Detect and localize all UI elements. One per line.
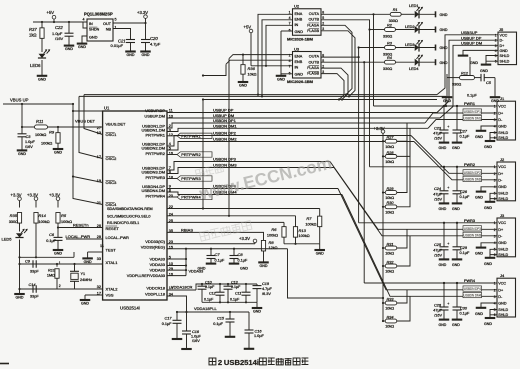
svg-text:/16V: /16V: [434, 314, 442, 318]
svg-text:28: 28: [97, 235, 101, 239]
svg-text:GND: GND: [484, 206, 492, 210]
wire RBIAS to R8: [261, 232, 264, 241]
svg-text:GND: GND: [38, 77, 46, 81]
svg-text:10kΩ: 10kΩ: [385, 145, 394, 149]
wire R28 riser: [397, 128, 410, 156]
svg-text:SCL/SMBCLK/CFG.SEL0: SCL/SMBCLK/CFG.SEL0: [107, 215, 150, 219]
ground GND below C3: [17, 149, 28, 151]
svg-text:R37: R37: [29, 27, 37, 32]
resistor R3 330: [385, 46, 396, 50]
svg-text:R9: R9: [49, 130, 55, 135]
svg-text:RBIAS: RBIAS: [181, 228, 193, 233]
svg-text:USBDN DM4: USBDN DM4: [463, 294, 481, 298]
ground GND below R36: [238, 81, 249, 83]
svg-text:1kΩ: 1kΩ: [29, 33, 37, 38]
wire regulator OUT to +3.3V: [113, 22, 146, 24]
ground GND below C22: [64, 45, 75, 47]
svg-text:C13: C13: [231, 280, 238, 284]
svg-text:R3: R3: [387, 41, 393, 45]
svg-text:LOCAL..PWR: LOCAL..PWR: [106, 236, 130, 240]
svg-text:GND: GND: [452, 263, 460, 267]
svg-text:2: 2: [494, 172, 496, 176]
wire regulator NB pin to C21: [113, 29, 131, 40]
svg-text:+3.3V: +3.3V: [27, 192, 38, 197]
ground GND below J5 GND pin: [458, 55, 469, 57]
wire IC top-left corner link: [73, 110, 103, 112]
supply +3.3V terminal at regulator output: [144, 15, 148, 19]
svg-text:USBDN DM2: USBDN DM2: [213, 137, 237, 142]
svg-text:GND: GND: [439, 207, 447, 211]
svg-text:5: 5: [115, 18, 117, 22]
wire R29 riser: [397, 136, 407, 193]
svg-text:0.1μF: 0.1μF: [460, 134, 470, 138]
svg-text:PRTPWR1: PRTPWR1: [181, 133, 201, 138]
svg-text:12: 12: [169, 133, 173, 137]
svg-text:+: +: [447, 302, 449, 306]
svg-text:/16V: /16V: [192, 339, 200, 343]
svg-text:2: 2: [494, 228, 496, 232]
svg-text:RESET: RESET: [106, 226, 120, 231]
wire PWR2 line: [370, 166, 498, 168]
svg-text:TEST: TEST: [106, 247, 117, 252]
capacitor C16: [248, 312, 250, 330]
svg-text:1: 1: [495, 33, 497, 37]
capacitor C14: [32, 285, 34, 293]
svg-text:0.1μF: 0.1μF: [46, 239, 56, 243]
svg-text:USBDN DP2: USBDN DP2: [213, 131, 237, 136]
svg-text:PRTPWR3: PRTPWR3: [181, 176, 201, 181]
svg-text:C5: C5: [486, 81, 492, 85]
corner mark bottom-left: [0, 363, 9, 365]
ground GND at J1: [476, 130, 487, 132]
wire USBDN DM1 row: [167, 128, 428, 131]
svg-text:VBUS.DET: VBUS.DET: [106, 121, 127, 126]
wire LED6 to ground: [41, 60, 43, 75]
ground GND below C25: [439, 258, 450, 260]
svg-text:GND: GND: [127, 53, 135, 57]
svg-text:R7: R7: [306, 216, 312, 221]
svg-text:OSC1: OSC1: [106, 132, 118, 137]
svg-text:VCC: VCC: [498, 221, 506, 225]
svg-text:GND: GND: [452, 323, 460, 327]
svg-text:C17: C17: [165, 316, 173, 320]
wire R12 left to ground leg: [447, 77, 460, 79]
capacitor C11: [245, 284, 247, 292]
svg-text:C15: C15: [217, 316, 225, 320]
svg-text:27: 27: [97, 126, 101, 130]
resistor R14 100k: [34, 213, 38, 224]
regulator U4 PQ1L303M2SP: [87, 19, 113, 41]
wire USBDN DM3 row: [167, 168, 334, 174]
svg-text:USBDN DP2: USBDN DP2: [464, 171, 481, 175]
capacitor C7: [210, 249, 212, 256]
svg-text:0.1μF: 0.1μF: [460, 251, 470, 255]
svg-text:C26: C26: [434, 303, 442, 307]
svg-text:0.1μF: 0.1μF: [215, 259, 225, 263]
label box USBDN DP3: [463, 226, 482, 231]
svg-text:R4: R4: [387, 56, 392, 60]
svg-text:GND: GND: [498, 124, 507, 128]
svg-text:1: 1: [494, 281, 496, 285]
svg-text:R29: R29: [387, 187, 395, 191]
ground below C18: [181, 348, 192, 350]
svg-text:C29: C29: [460, 246, 468, 250]
svg-text:C24: C24: [434, 187, 441, 191]
svg-text:10kΩ: 10kΩ: [385, 196, 394, 200]
svg-text:USBDN DM1: USBDN DM1: [213, 123, 237, 128]
wire SDA pin22 to R7: [167, 208, 320, 210]
svg-text:XTAL2: XTAL2: [106, 286, 119, 291]
svg-text:1: 1: [494, 104, 496, 108]
svg-text:C12: C12: [209, 292, 216, 296]
resistor R34 10k: [382, 320, 384, 322]
svg-text:USBUP DM: USBUP DM: [461, 40, 482, 45]
wire cap bank bottom bus: [202, 301, 257, 303]
capacitor C21: [126, 39, 135, 41]
ground GND below C30: [452, 319, 463, 321]
svg-text:XTAL1: XTAL1: [106, 260, 119, 265]
wire VDD33 feed to +3.3V rail: [288, 249, 384, 298]
capacitor C30 0.1uF: [456, 282, 458, 284]
svg-text:GND: GND: [16, 296, 24, 300]
svg-text:33pF: 33pF: [30, 269, 39, 273]
svg-text:0.1μF: 0.1μF: [460, 195, 470, 199]
wire USBUP DP row: [167, 112, 437, 114]
supply +3.3V terminal VDD33: [253, 239, 257, 243]
resistor R37: [41, 22, 43, 29]
label box USBDN DP1: [463, 109, 482, 114]
svg-text:C30: C30: [460, 306, 468, 310]
svg-text:R27: R27: [387, 136, 395, 140]
wire U3 OUTB to LED row4: [321, 61, 385, 63]
wire J2 GND pin: [481, 187, 497, 191]
svg-text:+: +: [447, 186, 449, 190]
svg-text:GND: GND: [440, 46, 448, 50]
svg-text:RS.IND/CFG.SEL1: RS.IND/CFG.SEL1: [107, 221, 139, 225]
capacitor C15: [229, 312, 231, 319]
svg-text:+3.3V: +3.3V: [137, 10, 148, 15]
supply +3.3V terminal for R35: [18, 197, 22, 201]
svg-text:GND: GND: [89, 36, 98, 40]
ground GND below R8: [258, 261, 269, 263]
svg-text:SHLD: SHLD: [498, 308, 508, 312]
ground GND below R12 left: [442, 96, 453, 98]
svg-text:R8: R8: [269, 240, 275, 245]
svg-text:C8: C8: [238, 252, 244, 257]
svg-text:USBDN DP4: USBDN DP4: [464, 287, 481, 291]
wire OCS bus line C: [203, 99, 437, 101]
wire USBDN DP4 row: [167, 188, 338, 190]
svg-text:R10: R10: [48, 268, 56, 272]
ground GND below C7: [206, 263, 217, 265]
svg-text:GND: GND: [142, 53, 150, 57]
ground below C17: [172, 338, 183, 340]
svg-text:100kΩ: 100kΩ: [61, 220, 72, 224]
svg-text:12kΩ: 12kΩ: [269, 246, 278, 250]
svg-text:USBDN DM2: USBDN DM2: [463, 177, 481, 181]
capacitor C26 47uF: [443, 282, 445, 284]
svg-text:GND: GND: [54, 252, 62, 256]
resistor R31 10k: [382, 247, 384, 249]
wire U2 ENA input: [258, 14, 293, 94]
svg-text:LED4: LED4: [409, 67, 419, 71]
svg-text:4: 4: [83, 18, 85, 22]
svg-text:VCC: VCC: [500, 33, 508, 37]
svg-text:FLAGB: FLAGB: [307, 72, 319, 76]
svg-text:/16V: /16V: [434, 137, 442, 141]
wire R32 riser: [397, 236, 410, 266]
svg-text:R13: R13: [299, 228, 307, 233]
svg-text:3: 3: [495, 44, 497, 48]
svg-text:7: 7: [289, 64, 291, 68]
svg-text:VDDA33: VDDA33: [149, 267, 165, 272]
svg-text:SHLD: SHLD: [500, 54, 510, 58]
wire USBUP DM row: [167, 117, 440, 119]
ground GND below LED6: [37, 75, 48, 77]
svg-text:J4: J4: [500, 273, 505, 278]
crystal Y1 24MHz: [74, 264, 76, 271]
wire USBDN DM4 slant to J4: [342, 195, 497, 297]
svg-text:GND: GND: [239, 84, 247, 88]
capacitor C27 0.1uF: [456, 105, 458, 107]
svg-text:0.01μF: 0.01μF: [111, 43, 124, 48]
capacitor C17: [176, 312, 178, 320]
ground GND below C8: [229, 263, 240, 265]
resistor R5 100k: [56, 213, 60, 224]
wire U3 GND pin: [281, 74, 293, 75]
wire U3 OUTA: [321, 48, 385, 58]
wire R8 to ground: [263, 251, 265, 262]
svg-text:OSC3: OSC3: [106, 180, 118, 185]
svg-text:19: 19: [97, 179, 101, 183]
capacitor C22: [68, 22, 70, 33]
supply +5V terminal: [52, 15, 56, 19]
svg-text:LED3: LED3: [405, 43, 415, 47]
wire U3 ENB jog: [226, 60, 293, 64]
svg-text:USBSUP: USBSUP: [461, 30, 478, 35]
svg-text:LED6: LED6: [30, 63, 41, 68]
resistor R35 330: [17, 213, 21, 224]
svg-text:GND: GND: [253, 310, 261, 314]
svg-text:USBDN DP1: USBDN DP1: [464, 110, 481, 114]
svg-text:GND: GND: [84, 260, 92, 264]
LED LED4: [415, 59, 419, 66]
resistor R4 330: [385, 60, 396, 64]
resistor R29 10k: [382, 191, 384, 193]
wire vertical SDA riser: [202, 100, 204, 209]
wire RESET net: [57, 223, 59, 228]
svg-text:+3.3V: +3.3V: [374, 126, 385, 131]
svg-text:R35: R35: [10, 213, 18, 218]
svg-text:24MHz: 24MHz: [80, 278, 92, 282]
svg-text:SDA/SMBDATA/NON.REM: SDA/SMBDATA/NON.REM: [107, 207, 153, 211]
svg-text:PWR3: PWR3: [464, 219, 475, 223]
svg-text:C23: C23: [434, 126, 442, 130]
svg-text:R12: R12: [461, 72, 469, 76]
svg-text:100kΩ: 100kΩ: [299, 234, 310, 238]
wire VDD33(REG) pin15: [167, 248, 288, 250]
svg-text:/16V: /16V: [55, 36, 64, 41]
svg-text:PRTPWR3: PRTPWR3: [146, 175, 166, 180]
ground GND at J2: [476, 191, 487, 193]
svg-text:U3: U3: [294, 46, 300, 51]
svg-text:C20: C20: [150, 36, 158, 41]
svg-text:10kΩ: 10kΩ: [385, 325, 394, 329]
svg-text:2: 2: [494, 111, 496, 115]
svg-text:10kΩ: 10kΩ: [385, 252, 394, 256]
resistor R12 330: [460, 76, 475, 80]
capacitor C23 47uF: [443, 105, 445, 107]
svg-text:SHLD: SHLD: [498, 248, 508, 252]
svg-text:USBUP.DP: USBUP.DP: [145, 108, 165, 113]
watermark chinese fragment upper: [195, 164, 223, 178]
svg-text:21: 21: [97, 201, 101, 205]
svg-text:ENB: ENB: [295, 60, 303, 64]
svg-text:SHLD: SHLD: [498, 253, 508, 257]
wire USBDN DP4 slant to J4: [338, 189, 497, 290]
svg-text:47μF: 47μF: [433, 192, 442, 196]
svg-text:OUTB: OUTB: [308, 60, 319, 64]
svg-text:PRTPWR1: PRTPWR1: [146, 132, 166, 137]
svg-text:GND: GND: [475, 312, 483, 316]
flag PRTPWR3: [167, 178, 177, 180]
svg-text:VCC: VCC: [498, 165, 506, 169]
svg-text:LED5: LED5: [2, 237, 13, 242]
wire bank to ground: [256, 302, 258, 307]
label box USBDN DM2: [463, 176, 482, 181]
wire R4 to LED4: [396, 61, 415, 63]
svg-text:2: 2: [495, 39, 497, 43]
wire USBDN DP1 slant to J1: [425, 113, 497, 123]
svg-text:D-: D-: [498, 179, 503, 183]
svg-text:GND: GND: [439, 146, 447, 150]
svg-text:GND: GND: [500, 49, 509, 53]
svg-text:1.0μF: 1.0μF: [52, 31, 63, 36]
svg-text:USBDN DP3: USBDN DP3: [464, 227, 481, 231]
svg-text:2: 2: [494, 288, 496, 292]
connector J3 body: [497, 218, 516, 257]
wire shield leg to R12 row: [469, 57, 471, 78]
svg-text:GND: GND: [65, 47, 73, 51]
ic U2 MIC2026-1BM body: [293, 9, 322, 36]
wire USBDN DM3 slant to J3: [334, 168, 497, 236]
svg-text:33pF: 33pF: [30, 294, 39, 298]
ground GND below C27: [452, 142, 463, 144]
svg-text:R34: R34: [387, 315, 394, 319]
svg-text:VCC: VCC: [498, 104, 506, 108]
svg-text:R1: R1: [393, 8, 398, 12]
svg-text:GND: GND: [475, 252, 483, 256]
svg-text:R2: R2: [387, 23, 393, 27]
svg-text:/16V: /16V: [434, 197, 442, 201]
svg-text:10kΩ: 10kΩ: [248, 73, 257, 77]
ground below C16: [244, 348, 255, 350]
svg-text:IN: IN: [89, 22, 93, 26]
svg-text:ENA: ENA: [295, 12, 303, 16]
svg-text:330Ω: 330Ω: [9, 220, 18, 224]
svg-text:C19: C19: [262, 282, 270, 286]
svg-text:FLAGA: FLAGA: [307, 66, 319, 70]
svg-text:FLAGA: FLAGA: [307, 23, 319, 27]
connector J5 body: [498, 32, 517, 65]
capacitor C10: [201, 284, 203, 286]
svg-text:U1: U1: [104, 106, 110, 111]
svg-text:47μF: 47μF: [433, 248, 442, 252]
svg-text:1.0μF: 1.0μF: [254, 334, 264, 338]
svg-text:R14: R14: [39, 213, 47, 218]
svg-text:GND: GND: [498, 301, 507, 305]
wire USBDN DM1 slant to J1: [428, 120, 497, 129]
ground terminal LED1: [435, 11, 437, 17]
resistor R6 100k: [282, 227, 286, 238]
ic U1 USB2514 body: [103, 111, 167, 300]
label box USBDN DM1: [463, 115, 482, 120]
wire U2 FLAGB drop: [321, 31, 355, 97]
svg-text:VDD33(REG): VDD33(REG): [141, 244, 166, 249]
svg-text:OUTB: OUTB: [308, 18, 319, 22]
capacitor C29 0.1uF: [456, 222, 458, 224]
ground GND below C23: [439, 142, 450, 144]
capacitor C6: [57, 228, 59, 238]
svg-text:Y1: Y1: [81, 272, 86, 276]
wire U2 GND pin: [281, 30, 293, 32]
svg-text:VDDPLLREF/VDDA33: VDDPLLREF/VDDA33: [127, 274, 165, 278]
svg-text:0.1μF: 0.1μF: [238, 259, 248, 263]
svg-text:GND: GND: [480, 69, 488, 73]
svg-text:OSC2: OSC2: [106, 156, 118, 161]
svg-text:C14: C14: [29, 283, 36, 287]
svg-text:0.1μF: 0.1μF: [204, 297, 214, 301]
svg-text:R6: R6: [271, 227, 277, 232]
resistor R33 10k: [382, 302, 384, 304]
svg-text:ENB: ENB: [295, 17, 303, 21]
capacitor C8: [233, 249, 235, 256]
svg-text:10kΩ: 10kΩ: [385, 210, 394, 214]
capacitor C13 bank: [227, 284, 229, 286]
label box USBDN DP2: [463, 170, 482, 175]
ground GND at J4 shield: [485, 317, 496, 319]
ground GND below C6: [53, 249, 64, 251]
svg-text:GND: GND: [440, 28, 448, 32]
svg-text:D-: D-: [498, 295, 503, 299]
svg-text:LED1: LED1: [409, 4, 419, 8]
svg-text:USB2514i: USB2514i: [224, 358, 259, 367]
wire VDDCR18 pin14: [167, 289, 196, 291]
ground GND below U2 U3: [276, 75, 287, 77]
svg-text:J5: J5: [499, 27, 504, 32]
svg-text:SHLD: SHLD: [498, 313, 508, 317]
svg-text:VBUS UP: VBUS UP: [10, 98, 29, 103]
svg-text:PWR4: PWR4: [464, 279, 475, 283]
LED LED1: [415, 11, 419, 18]
svg-text:R33: R33: [387, 297, 395, 301]
ground GND at J2 shield: [485, 201, 496, 203]
wire U2 IN supply: [266, 25, 293, 66]
ground GND below C5: [490, 96, 501, 98]
svg-text:D-: D-: [498, 235, 503, 239]
wire gnd row to TEST stub: [20, 256, 75, 258]
svg-text:0.1μF: 0.1μF: [230, 297, 240, 301]
resistor R10 1M: [56, 264, 58, 267]
svg-text:3: 3: [494, 235, 496, 239]
resistor R2 330: [385, 28, 396, 32]
svg-text:VCC: VCC: [498, 281, 506, 285]
label box USBDN DM3: [463, 232, 482, 237]
wire J1 shield tie: [490, 133, 497, 138]
wire +3.3V rail: [382, 133, 384, 321]
LED LED6: [38, 54, 45, 58]
svg-text:D+: D+: [498, 172, 503, 176]
